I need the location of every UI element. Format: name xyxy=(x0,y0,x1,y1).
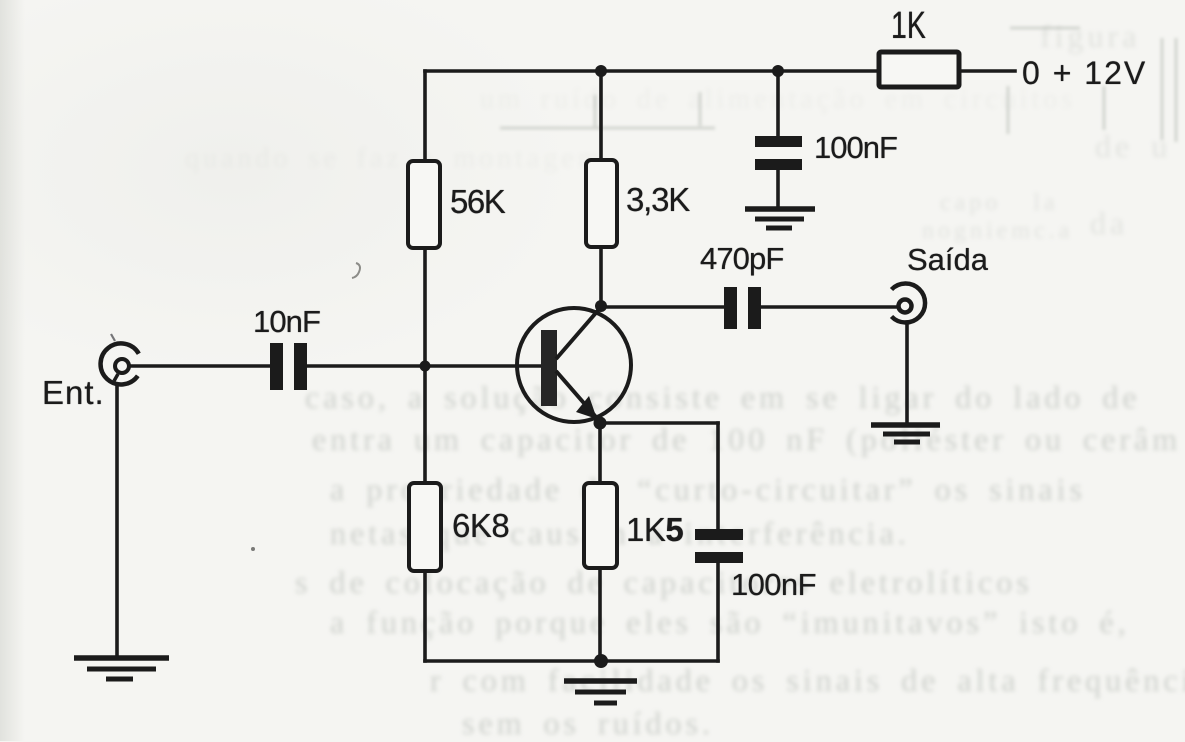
junction dot at collector node xyxy=(595,300,607,312)
output connector Saída xyxy=(892,284,926,323)
ghost bleed-through text line 5 xyxy=(295,564,1033,601)
label 1K xyxy=(891,5,926,48)
capacitor 100nF (top) plates xyxy=(755,136,802,170)
wire: top rail right of 1K resistor to +12V xyxy=(961,69,1015,73)
ground at output xyxy=(871,425,940,442)
transistor Q1 body circle xyxy=(517,308,631,422)
label 100nF (top) xyxy=(814,130,897,166)
wire: collector node to 470pF xyxy=(601,305,724,309)
wire: 100nF top cap to ground xyxy=(776,170,780,208)
wire: 3,3K bottom to collector node xyxy=(599,247,603,307)
label 6K8 xyxy=(452,507,509,545)
ghost bleed-through text line 2 xyxy=(312,421,1181,458)
resistor 6K8 xyxy=(409,483,441,571)
scan speck: comma curl near 470pF xyxy=(352,263,360,278)
label 470pF xyxy=(700,241,783,277)
resistor 56K xyxy=(408,161,440,248)
label 0 + 12V xyxy=(1022,55,1147,92)
resistor 1K5 xyxy=(584,483,617,568)
wire: rail to 100nF top cap xyxy=(776,71,780,137)
wire: output connector down to ground xyxy=(905,322,909,423)
ground at input xyxy=(74,658,169,679)
label 56K xyxy=(450,183,504,221)
wire: rail to 3,3K xyxy=(599,71,603,160)
junction dot at bottom rail xyxy=(594,654,608,668)
label 100nF (bottom) xyxy=(731,567,816,603)
ghost bleed-through text line 1 xyxy=(305,379,1141,416)
resistor 3,3K xyxy=(586,160,617,247)
ghost bleed-through text line 7 xyxy=(430,662,1185,699)
label Ent. xyxy=(42,374,105,412)
wire: 1K5 bottom to ground rail xyxy=(598,568,602,661)
wire: bottom ground rail xyxy=(425,659,718,663)
label 10nF xyxy=(253,304,320,340)
ghost small text right xyxy=(940,190,1059,217)
ghost bleed-through text line 4 xyxy=(330,515,910,552)
capacitor 470pF plates xyxy=(724,287,761,329)
ground under 100nF top xyxy=(745,209,815,228)
ghost bleed-through text line 8 xyxy=(462,705,714,742)
wire: 56K branch top (rail to 56K) xyxy=(423,71,427,161)
wire: base node down to 6K8 xyxy=(423,366,427,483)
input connector Ent. xyxy=(101,343,139,384)
wire: emitter down to 1K5 xyxy=(598,423,602,483)
capacitor 100nF (bottom) plates xyxy=(695,529,743,563)
transistor Q1 emitter stroke with arrow xyxy=(556,371,596,417)
transistor Q1 collector stroke xyxy=(556,307,601,359)
junction dot at emitter node xyxy=(594,417,607,430)
scan speck: dot below 10nF xyxy=(251,547,255,551)
junction dot at rail/100nF xyxy=(772,65,784,77)
wire: 10nF to base xyxy=(307,364,543,368)
ghost bleed-through faint upper row 2 xyxy=(185,143,604,175)
transistor Q1 base bar xyxy=(541,330,557,406)
wire: 470pF to output connector xyxy=(761,305,897,309)
wire: 100nF bottom cap to ground rail xyxy=(716,563,720,661)
wire: emitter node to right xyxy=(600,421,718,425)
label 1K5 xyxy=(626,511,683,549)
label Saída xyxy=(907,242,988,278)
capacitor 10nF plates xyxy=(270,343,307,390)
ghost bleed-through faint upper row 1 xyxy=(480,84,1076,116)
wire: 6K8 bottom to ground rail xyxy=(423,571,427,661)
resistor 1K (horizontal) xyxy=(879,52,959,87)
ghost bleed-through text line 6 xyxy=(330,604,1130,641)
ground at bottom rail xyxy=(564,681,637,703)
wire: input connector down to ground xyxy=(115,385,119,655)
label 3,3K xyxy=(626,181,689,219)
ghost bleed-through text line 3 xyxy=(330,471,1086,508)
ghost marks top right xyxy=(1040,18,1140,55)
wire: right branch down to 100nF bottom cap xyxy=(716,423,720,530)
junction dot at rail/3,3K xyxy=(595,65,607,77)
ghost figure bleed-through (reverse page schematic) xyxy=(0,0,1185,300)
wire: 56K bottom to base node xyxy=(423,248,427,366)
junction dot at base node xyxy=(420,361,431,372)
wire: top rail from 56K branch to 1K resistor xyxy=(425,69,877,73)
wire: input connector to 10nF xyxy=(131,364,270,368)
scan speck: apostrophe near Ent xyxy=(111,334,115,341)
